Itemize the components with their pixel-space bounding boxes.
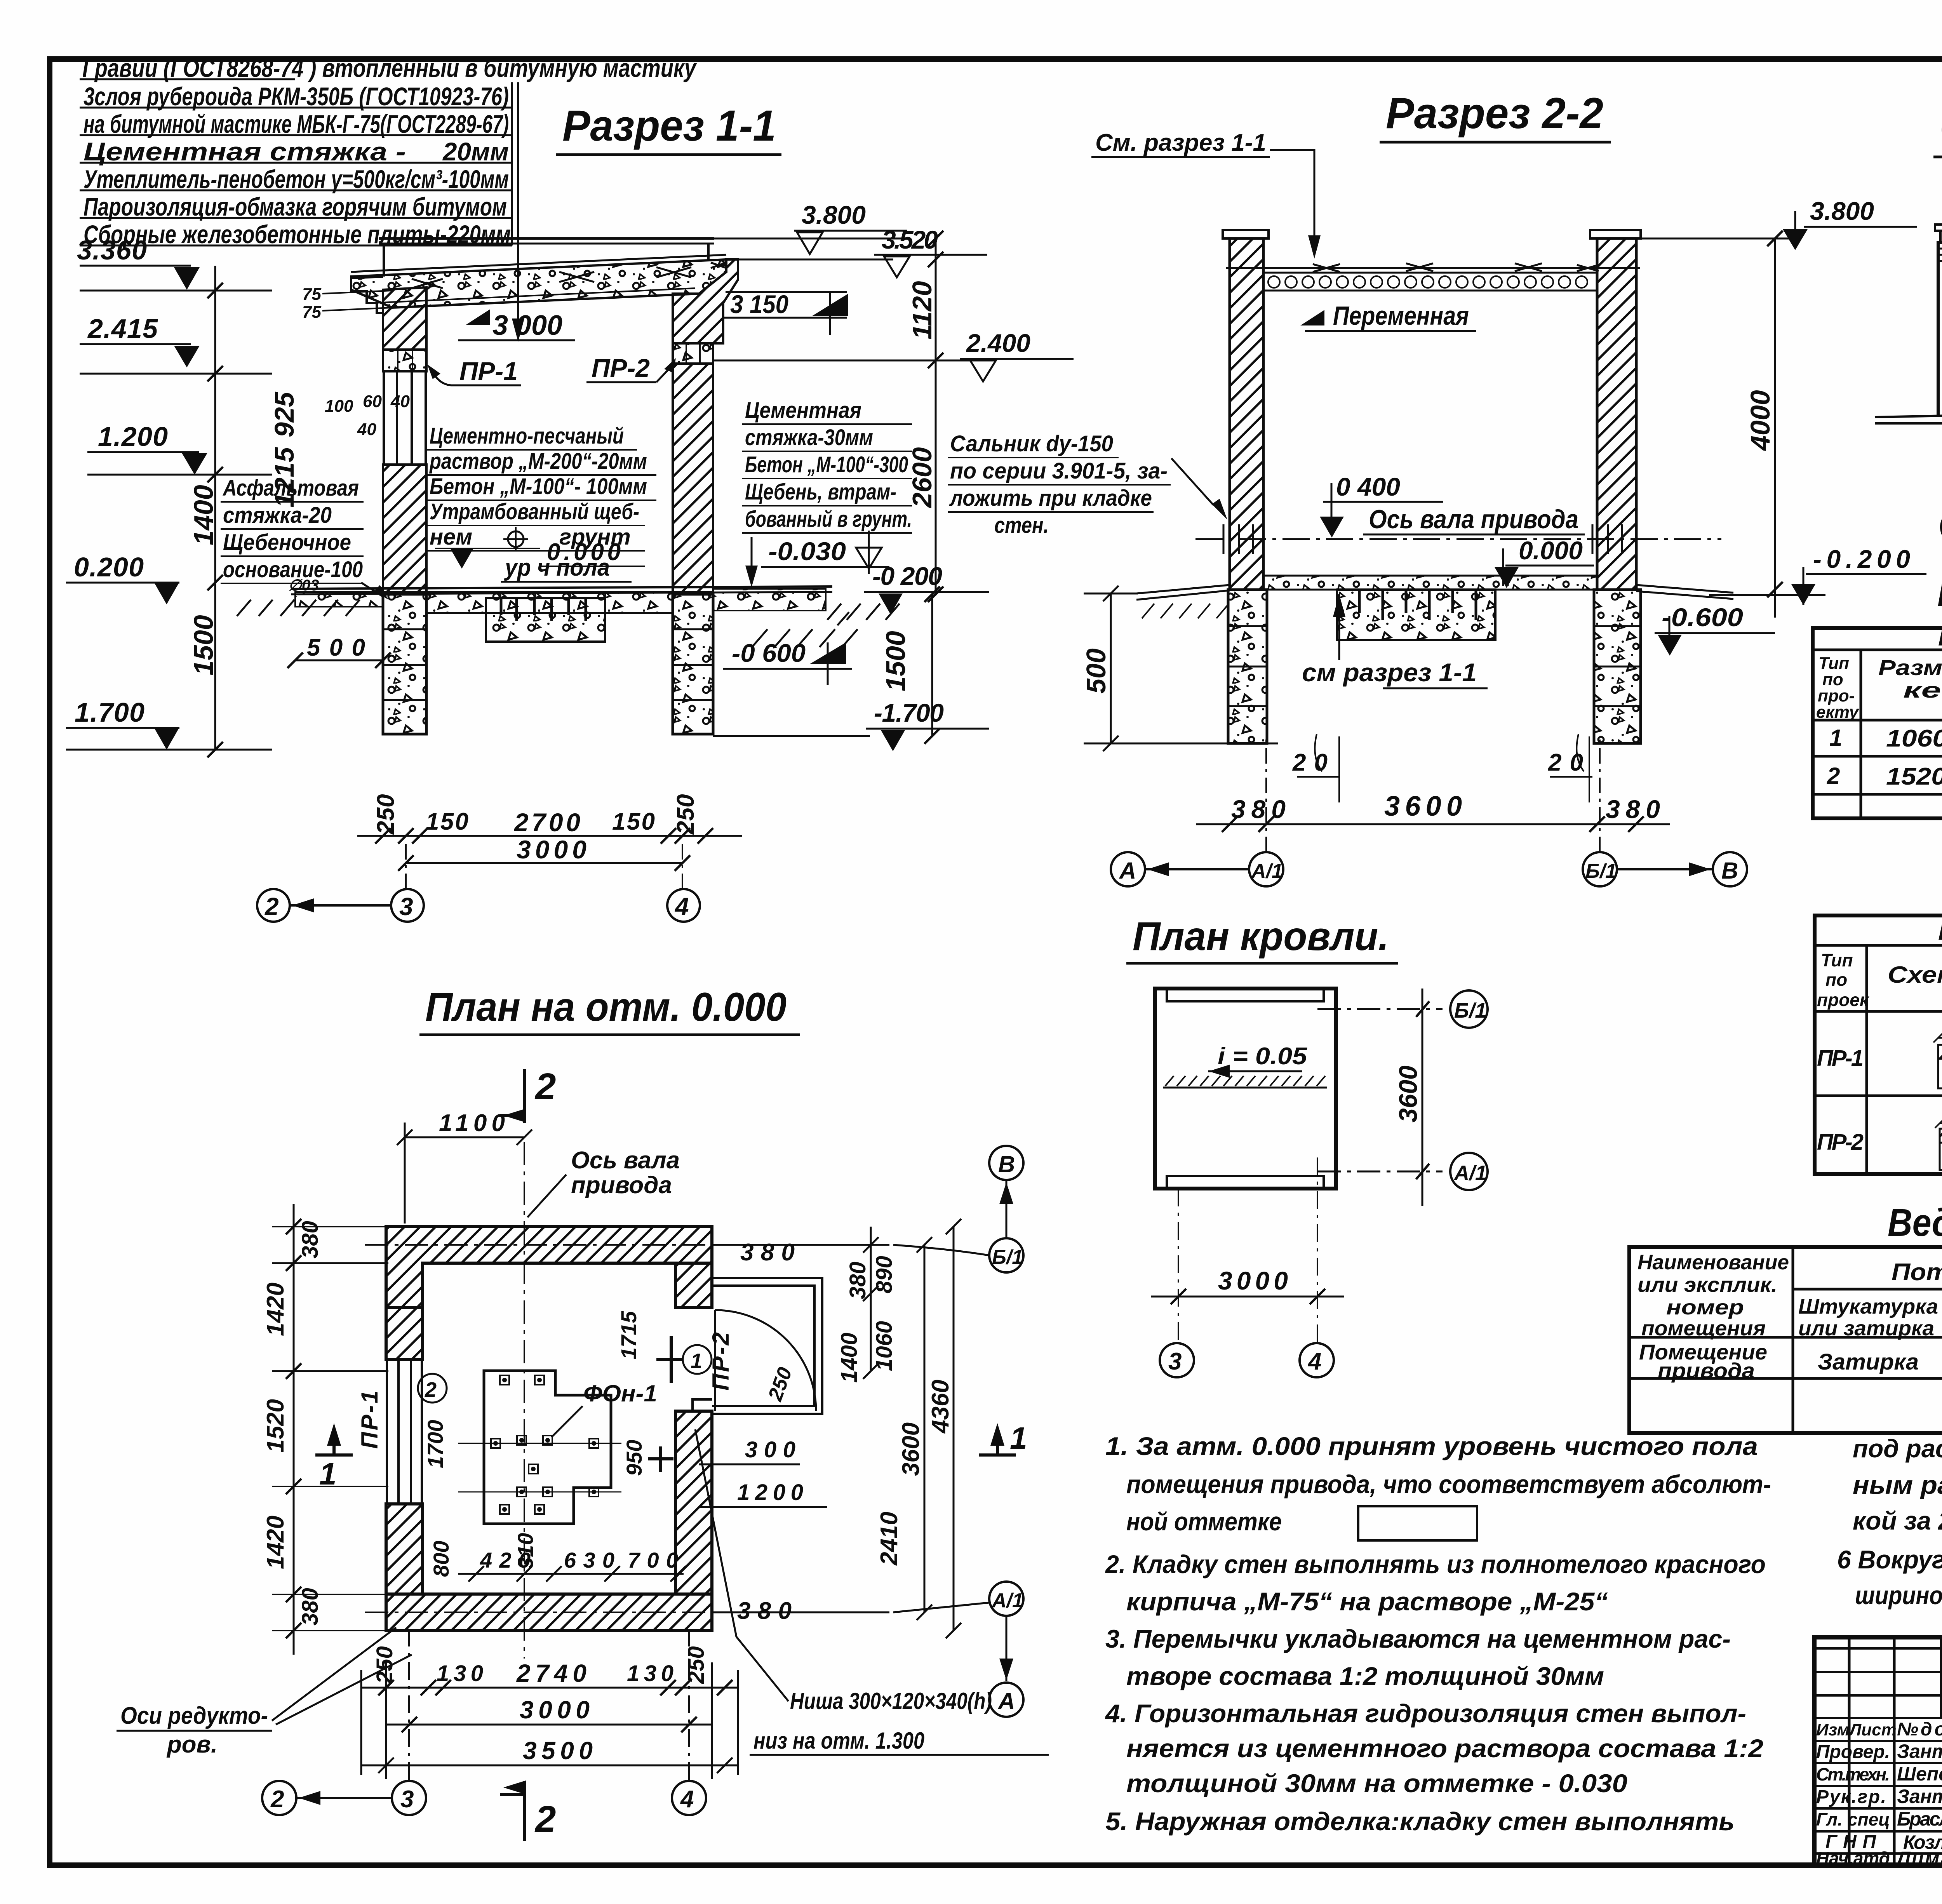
svg-text:проек: проек [1817, 990, 1870, 1010]
svg-text:4360: 4360 [927, 1380, 954, 1434]
door swing arc [715, 1310, 816, 1411]
section mark 1 left [315, 1432, 353, 1455]
dim 3000 [1151, 1296, 1344, 1298]
svg-text:1420: 1420 [262, 1283, 289, 1336]
svg-text:Ось вала привода: Ось вала привода [1369, 505, 1578, 534]
svg-text:помещения привода, что соответ: помещения привода, что соответствует абс… [1126, 1470, 1771, 1498]
axis circle 4 [667, 889, 700, 922]
rebar cross patches on slab [412, 263, 726, 288]
ground hatch right [752, 604, 900, 647]
svg-text:75: 75 [302, 303, 321, 322]
svg-text:1060×2400: 1060×2400 [1886, 725, 1942, 752]
svg-text:нем: нем [430, 524, 472, 550]
svg-text:Б/1: Б/1 [992, 1246, 1023, 1269]
svg-text:2.415: 2.415 [87, 313, 158, 344]
svg-text:2: 2 [534, 1798, 556, 1840]
axis circle A [1111, 852, 1145, 886]
facade wall outline [1938, 242, 1942, 415]
svg-text:-0.030: -0.030 [768, 537, 846, 566]
svg-text:3600: 3600 [898, 1422, 924, 1476]
section mark 2 bottom [500, 1787, 524, 1841]
left apron [1136, 585, 1230, 600]
bottom wall (hatched) [386, 1594, 712, 1631]
svg-text:Разрез 1-1: Разрез 1-1 [562, 101, 776, 150]
svg-text:по серии 3.901-5, за-: по серии 3.901-5, за- [950, 458, 1168, 484]
axis circle V [1713, 852, 1747, 886]
right wall (hatched) [673, 364, 713, 592]
louvre opening in left wall [384, 371, 426, 465]
svg-text:няется из цементного раствор: няется из цементного раствора состава 1:… [1126, 1734, 1763, 1763]
svg-text:310: 310 [513, 1533, 538, 1569]
svg-text:4: 4 [674, 893, 689, 921]
svg-text:75: 75 [302, 285, 321, 304]
svg-text:150: 150 [612, 808, 655, 835]
svg-text:1715: 1715 [616, 1311, 641, 1359]
slope mark Peremennaya [1300, 310, 1324, 325]
floor lines [291, 587, 832, 589]
svg-text:кирпича „М-75“ на растворе „М-: кирпича „М-75“ на растворе „М-25“ [1126, 1587, 1608, 1616]
svg-text:Фасад Б/1-А/1: Фасад Б/1-А/1 [1940, 107, 1942, 152]
left cornice [351, 277, 383, 313]
svg-text:i = 0.05: i = 0.05 [1218, 1043, 1308, 1070]
svg-text:ным раствором. Окна и двери: ным раствором. Окна и двери окрасить мас… [1853, 1471, 1942, 1499]
lintel table grid [1815, 915, 1942, 1174]
svg-text:Б/1: Б/1 [1454, 999, 1486, 1022]
svg-text:2. Кладку стен выполнять из по: 2. Кладку стен выполнять из полнотелого … [1105, 1550, 1766, 1579]
svg-text:3.800: 3.800 [802, 200, 866, 229]
left foundation [1228, 590, 1267, 743]
louvre opening in left wall [387, 1359, 422, 1504]
svg-text:Оси редукто-: Оси редукто- [120, 1702, 268, 1729]
svg-text:3: 3 [400, 1786, 414, 1813]
svg-text:ПР-2: ПР-2 [592, 353, 650, 382]
right foundation (speckled) [673, 594, 713, 734]
svg-text:В: В [1721, 858, 1738, 884]
svg-text:3.520: 3.520 [882, 225, 938, 254]
svg-text:Ось вала: Ось вала [571, 1147, 680, 1174]
svg-text:3.800: 3.800 [1810, 197, 1874, 225]
svg-text:Б/1: Б/1 [1585, 860, 1617, 882]
left wall upper (hatched) [383, 287, 426, 350]
svg-text:привода: привода [571, 1172, 672, 1199]
svg-text:2: 2 [270, 1786, 284, 1813]
axis circle A right [989, 1683, 1023, 1717]
svg-text:0.000: 0.000 [1519, 536, 1583, 565]
svg-text:Проемы: Проемы [1938, 625, 1942, 651]
svg-text:60: 60 [363, 392, 382, 411]
top-right dim 380 [712, 1244, 889, 1246]
svg-text:толщиной 30мм на отметке -: толщиной 30мм на отметке - 0.030 [1126, 1769, 1627, 1798]
svg-text:1500: 1500 [188, 615, 219, 675]
note block right edge [511, 82, 513, 245]
axis circle B/1 right [989, 1238, 1023, 1272]
bottom parapet inner line [1167, 1176, 1324, 1187]
svg-text:номер: номер [1666, 1296, 1744, 1319]
centre pit [1337, 590, 1495, 640]
left stamp grid verticals [1849, 1637, 1942, 1865]
svg-text:Ст.техн.: Ст.техн. [1816, 1764, 1890, 1784]
chain 3500 [361, 1765, 738, 1767]
svg-text:250: 250 [372, 1646, 397, 1684]
svg-text:250: 250 [372, 794, 399, 835]
svg-text:помещения: помещения [1641, 1317, 1766, 1340]
svg-text:ПР-1: ПР-1 [1817, 1046, 1864, 1071]
svg-text:Браславский: Браславский [1897, 1808, 1942, 1830]
circled 1 [683, 1345, 712, 1374]
svg-text:1: 1 [691, 1349, 702, 1373]
svg-text:380: 380 [298, 1221, 323, 1258]
svg-text:250: 250 [684, 1646, 709, 1684]
svg-text:250: 250 [672, 794, 699, 835]
svg-text:3600: 3600 [1394, 1065, 1422, 1123]
svg-text:Лимахин: Лимахин [1896, 1848, 1942, 1869]
svg-text:В: В [998, 1151, 1015, 1177]
vertical dim 3600 [1422, 989, 1423, 1206]
svg-text:Переменная: Переменная [1333, 301, 1469, 331]
roof outline [1155, 989, 1336, 1189]
dim 500 [295, 660, 385, 661]
foundation pedestal FOn-1 [484, 1371, 611, 1524]
svg-text:150: 150 [426, 808, 468, 835]
top wall (hatched) [386, 1227, 712, 1307]
openings table grid [1813, 628, 1942, 818]
circled 2 [418, 1374, 447, 1403]
svg-text:Цементная: Цементная [745, 398, 861, 423]
left stamp grid horizontals [1814, 1648, 1942, 1854]
axis stems [1266, 736, 1600, 852]
dim 1100 [405, 1136, 524, 1138]
svg-text:380: 380 [740, 1239, 795, 1266]
svg-text:Провер.: Провер. [1816, 1742, 1890, 1762]
svg-text:130: 130 [627, 1661, 673, 1686]
bottom chain 250/130/2740/130/250 [361, 1687, 738, 1689]
svg-text:-0 600: -0 600 [732, 639, 806, 667]
svg-text:4. Горизонтальная гидроизоляц: 4. Горизонтальная гидроизоляция стен вып… [1105, 1699, 1746, 1728]
svg-text:ров.: ров. [166, 1731, 218, 1758]
svg-text:-0 200: -0 200 [872, 562, 942, 590]
right wall cornice (hatched) [673, 259, 738, 343]
svg-text:Рук.гр.: Рук.гр. [1816, 1787, 1886, 1807]
svg-text:3: 3 [399, 893, 413, 921]
datum circle symbol [508, 531, 524, 547]
axis circle 2 [257, 889, 290, 922]
axis circle A/1 right [989, 1582, 1023, 1616]
svg-text:2600: 2600 [907, 447, 937, 508]
svg-text:Поталак: Поталак [1892, 1259, 1942, 1286]
axis centre lines [524, 1142, 525, 1659]
svg-text:ПР-2: ПР-2 [1817, 1130, 1864, 1155]
bottom dims 380/3600/380 [1196, 823, 1670, 825]
svg-text:4000: 4000 [1745, 390, 1775, 451]
svg-text:0 400: 0 400 [1336, 472, 1400, 501]
section mark 1 right [979, 1432, 1016, 1455]
svg-text:Зантберг: Зантберг [1897, 1786, 1942, 1807]
svg-text:Размер в клад-: Размер в клад- [1878, 655, 1942, 680]
svg-text:Затирка: Затирка [1818, 1349, 1919, 1375]
svg-text:ФОн-1: ФОн-1 [583, 1380, 657, 1406]
svg-text:-1.700: -1.700 [874, 698, 944, 727]
top parapet inner line [1167, 990, 1324, 1001]
svg-text:500: 500 [1081, 648, 1111, 694]
floor slab [1263, 576, 1597, 590]
svg-text:План кровли.: План кровли. [1133, 914, 1389, 959]
svg-text:ной отметке: ной отметке [1126, 1507, 1282, 1536]
left wall upper part [386, 1307, 423, 1359]
svg-text:1.200: 1.200 [98, 421, 168, 452]
svg-text:1500: 1500 [881, 631, 911, 691]
svg-text:3 000: 3 000 [492, 310, 562, 341]
porch walls [712, 1278, 822, 1414]
svg-text:1520: 1520 [262, 1399, 289, 1453]
door niche recess [675, 1399, 712, 1411]
title block outline [1814, 1637, 1942, 1865]
axis circle 4 [672, 1781, 706, 1815]
anchor bolts [491, 1375, 599, 1514]
svg-text:Цементная стяжка -: Цементная стяжка - [84, 137, 406, 166]
lintel PR-2 (speckled) [673, 343, 713, 364]
axis 3 stem [1178, 1189, 1179, 1342]
svg-text:низ на отм. 1.300: низ на отм. 1.300 [753, 1728, 924, 1754]
svg-text:40: 40 [357, 420, 376, 439]
svg-text:1060: 1060 [872, 1321, 897, 1371]
svg-text:ПР-1: ПР-1 [357, 1391, 383, 1449]
svg-text:ПР-2: ПР-2 [708, 1332, 734, 1391]
svg-text:А: А [997, 1688, 1015, 1714]
svg-text:Бетон „М-100“-300: Бетон „М-100“-300 [745, 452, 908, 477]
machine pit [486, 598, 605, 642]
svg-text:3слоя рубероида РКМ-350Б (ГОСТ: 3слоя рубероида РКМ-350Б (ГОСТ10923-76) [84, 82, 509, 111]
svg-text:А/1: А/1 [991, 1589, 1023, 1612]
svg-text:380: 380 [1231, 795, 1286, 823]
svg-text:Перемычки: Перемычки [1938, 920, 1942, 945]
axis circle 2 [262, 1781, 296, 1815]
svg-text:А: А [1119, 858, 1136, 884]
axis A/1 line [1317, 1171, 1443, 1173]
svg-text:Пароизоляция-обмазка горячим б: Пароизоляция-обмазка горячим битумом [84, 192, 507, 221]
dim 500 left [1110, 593, 1112, 743]
right apron [1636, 585, 1733, 599]
svg-text:5. Наружная отделка:кладку с: 5. Наружная отделка:кладку стен выполнят… [1105, 1807, 1735, 1836]
left wall lower (hatched) [383, 465, 426, 592]
right wall parapet cap [1590, 230, 1641, 238]
svg-text:Щебень, втрам-: Щебень, втрам- [745, 479, 896, 505]
axis circle 3 [1160, 1343, 1194, 1377]
axis lines [406, 842, 682, 889]
svg-text:или эксплик.: или эксплик. [1637, 1273, 1777, 1297]
bottom inner dims 420/310/630/700 [458, 1573, 684, 1575]
svg-text:раствор „М-200“-20мм: раствор „М-200“-20мм [429, 449, 647, 474]
svg-text:шириной 0 5м: шириной 0 5м [1855, 1581, 1942, 1610]
svg-text:40: 40 [390, 392, 410, 411]
svg-text:2: 2 [265, 893, 279, 921]
svg-text:4: 4 [680, 1786, 694, 1813]
svg-text:630: 630 [564, 1548, 614, 1572]
svg-text:Бетон „М-100“- 100мм: Бетон „М-100“- 100мм [430, 474, 647, 499]
svg-text:1. За атм. 0.000 принят уровен: 1. За атм. 0.000 принят уровень чистого … [1105, 1432, 1758, 1460]
svg-text:890: 890 [872, 1256, 897, 1293]
svg-text:ПР-1: ПР-1 [459, 357, 518, 385]
svg-text:1: 1 [1829, 725, 1842, 751]
svg-text:Гл. спец: Гл. спец [1816, 1809, 1890, 1829]
svg-text:А/1: А/1 [1251, 860, 1283, 882]
svg-text:1.700: 1.700 [75, 697, 144, 727]
svg-text:20мм: 20мм [442, 137, 509, 166]
left foundation (speckled) [383, 594, 426, 734]
svg-text:ложить при кладке: ложить при кладке [949, 486, 1152, 511]
svg-text:380: 380 [845, 1262, 870, 1299]
svg-text:4: 4 [1307, 1348, 1321, 1375]
lintel PR-1 (speckled) [383, 350, 426, 371]
svg-text:Разрез 2-2: Разрез 2-2 [1386, 89, 1603, 137]
svg-text:3 150: 3 150 [730, 290, 788, 318]
svg-text:1: 1 [1010, 1421, 1027, 1455]
svg-text:под расшивку швов, цоколь и от: под расшивку швов, цоколь и откосы оштук… [1853, 1434, 1942, 1463]
svg-text:Изм: Изм [1816, 1720, 1850, 1739]
svg-text:1400: 1400 [837, 1333, 862, 1383]
ground line [1875, 414, 1942, 423]
left wall (hatched) [1230, 238, 1263, 590]
right foundation [1594, 590, 1641, 743]
right wall below door (hatched) [675, 1411, 712, 1594]
svg-text:Ниша 300×120×340(h): Ниша 300×120×340(h) [790, 1688, 992, 1714]
svg-text:ке ℓ×h: ке ℓ×h [1903, 678, 1942, 702]
svg-text:Утрамбованный щеб-: Утрамбованный щеб- [430, 499, 639, 524]
svg-text:6 Вокруг здания устраивается: 6 Вокруг здания устраивается асфальтовая… [1837, 1545, 1942, 1574]
svg-text:Схема сечения: Схема сечения [1888, 962, 1942, 988]
svg-text:кой за 2 раза.: кой за 2 раза. [1853, 1506, 1942, 1535]
svg-text:1420: 1420 [262, 1516, 289, 1569]
svg-text:380: 380 [737, 1598, 792, 1624]
svg-text:См. разрез 1-1: См. разрез 1-1 [1095, 129, 1266, 156]
left vent stack [1940, 230, 1942, 242]
svg-text:Утеплитель-пенобетон γ=500кг/с: Утеплитель-пенобетон γ=500кг/см³-100мм [84, 165, 509, 193]
svg-text:950: 950 [622, 1440, 646, 1476]
svg-text:380: 380 [1606, 795, 1660, 823]
svg-text:380: 380 [298, 1588, 323, 1626]
svg-text:стяжка-20: стяжка-20 [223, 503, 332, 528]
parapet top [379, 237, 714, 240]
axis circle 3 [392, 1781, 426, 1815]
svg-text:∅03: ∅03 [288, 577, 319, 594]
leader arrow from notes to roof slab [517, 82, 519, 330]
right apron speckle [713, 589, 826, 611]
axis 4 stem [1317, 1157, 1318, 1342]
svg-text:500: 500 [307, 634, 365, 661]
vertical dim 4000 [1774, 238, 1776, 618]
right chain 1120/2600/1500 [935, 238, 937, 594]
svg-text:1520× 1215: 1520× 1215 [1886, 763, 1942, 790]
svg-text:Щебеночное: Щебеночное [223, 530, 351, 555]
svg-text:см разрез 1-1: см разрез 1-1 [1302, 658, 1477, 687]
svg-text:Тип: Тип [1821, 950, 1853, 970]
right axis circles: V [989, 1146, 1023, 1180]
svg-text:Цементно-песчаный: Цементно-песчаный [430, 423, 624, 449]
svg-text:2: 2 [425, 1378, 437, 1401]
svg-text:3.360: 3.360 [77, 235, 147, 265]
svg-text:0.200: 0.200 [74, 552, 144, 582]
svg-text:План на отм. 0.000: План на отм. 0.000 [425, 985, 787, 1030]
left apron speckle [295, 592, 383, 607]
blank elevation box [1358, 1506, 1477, 1540]
axis circle A/1 [1249, 852, 1283, 886]
right wall above door (hatched) [675, 1263, 712, 1307]
svg-text:-0.600: -0.600 [1662, 603, 1743, 632]
svg-text:1400: 1400 [188, 485, 219, 545]
chain 3000 [386, 1724, 712, 1726]
finishes table grid [1629, 1247, 1942, 1433]
svg-text:ур ч пола: ур ч пола [504, 554, 610, 581]
svg-text:на битумной мастике МБК-Г-75(Г: на битумной мастике МБК-Г-75(ГОСТ2289-67… [84, 110, 509, 138]
svg-text:А/1: А/1 [1453, 1161, 1487, 1185]
right wall (hatched) [1597, 238, 1636, 590]
ground hatch left [237, 600, 360, 616]
svg-text:по: по [1825, 969, 1847, 990]
svg-text:Лист: Лист [1848, 1720, 1897, 1739]
svg-text:Нач.атд: Нач.атд [1816, 1848, 1890, 1868]
parapet bands [1938, 249, 1942, 261]
svg-text:800: 800 [429, 1541, 453, 1577]
svg-text:привода: привода [1658, 1358, 1755, 1383]
svg-text:бованный в грунт.: бованный в грунт. [745, 506, 912, 532]
svg-text:3. Перемычки укладываются на ц: 3. Перемычки укладываются на цементном р… [1105, 1624, 1731, 1653]
svg-text:стяжка-30мм: стяжка-30мм [745, 425, 873, 450]
svg-text:Асфальтовая: Асфальтовая [222, 475, 359, 501]
svg-text:Ведомость проемов дверей и: Ведомость проемов дверей и окон [1937, 571, 1942, 614]
drainage hatch band [1163, 1087, 1327, 1089]
svg-text:Зантберг: Зантберг [1897, 1740, 1942, 1762]
svg-text:Сальник dy-150: Сальник dy-150 [950, 431, 1113, 456]
svg-text:700: 700 [628, 1548, 678, 1572]
bottom dim 3000 [406, 862, 682, 864]
svg-text:100: 100 [325, 397, 353, 416]
axis circle B/1 [1941, 509, 1942, 545]
svg-text:стен.: стен. [994, 513, 1049, 538]
svg-text:Наименование: Наименование [1637, 1251, 1789, 1274]
left wall lower part [386, 1504, 423, 1594]
floor slab speckled [426, 592, 673, 613]
sloped roof slab [351, 259, 726, 308]
svg-text:-0.200: -0.200 [1813, 545, 1910, 573]
svg-text:или затирка: или затирка [1798, 1317, 1934, 1340]
axis circle B/1 [1583, 852, 1617, 886]
svg-text:2410: 2410 [876, 1512, 903, 1566]
svg-text:300: 300 [745, 1437, 795, 1462]
svg-text:екту: екту [1816, 703, 1860, 722]
svg-text:925: 925 [269, 392, 299, 437]
svg-text:Ведомость отделки помещений: Ведомость отделки помещений [1888, 1201, 1942, 1244]
bottom dim chain 250/150/2700/150/250 [357, 835, 742, 837]
svg-text:3: 3 [1168, 1348, 1182, 1375]
left wall parapet cap [1223, 230, 1269, 238]
svg-text:2.400: 2.400 [966, 329, 1030, 357]
section mark 2 top [500, 1069, 524, 1123]
svg-text:2: 2 [1827, 763, 1840, 789]
svg-text:1120: 1120 [907, 281, 937, 339]
svg-text:1700: 1700 [423, 1420, 447, 1468]
axis circle 3 [391, 889, 424, 922]
right dim chains [870, 1227, 872, 1371]
svg-text:2: 2 [534, 1066, 556, 1107]
svg-text:Штукатурка: Штукатурка [1798, 1295, 1938, 1318]
axis B/1 line [1317, 1008, 1443, 1010]
axis circle 4 [1300, 1343, 1334, 1377]
svg-text:Шепеленко: Шепеленко [1897, 1763, 1942, 1785]
svg-text:Гравий (ГОСТ8268-74 ) втопленн: Гравий (ГОСТ8268-74 ) втопленный в битум… [82, 54, 697, 82]
roof slab with hollow cores [1226, 267, 1640, 269]
svg-text:творе состава 1:2 толщиной: творе состава 1:2 толщиной 30мм [1126, 1662, 1604, 1690]
left vertical dim chain [214, 266, 216, 750]
slope mark 3000 [466, 309, 490, 325]
